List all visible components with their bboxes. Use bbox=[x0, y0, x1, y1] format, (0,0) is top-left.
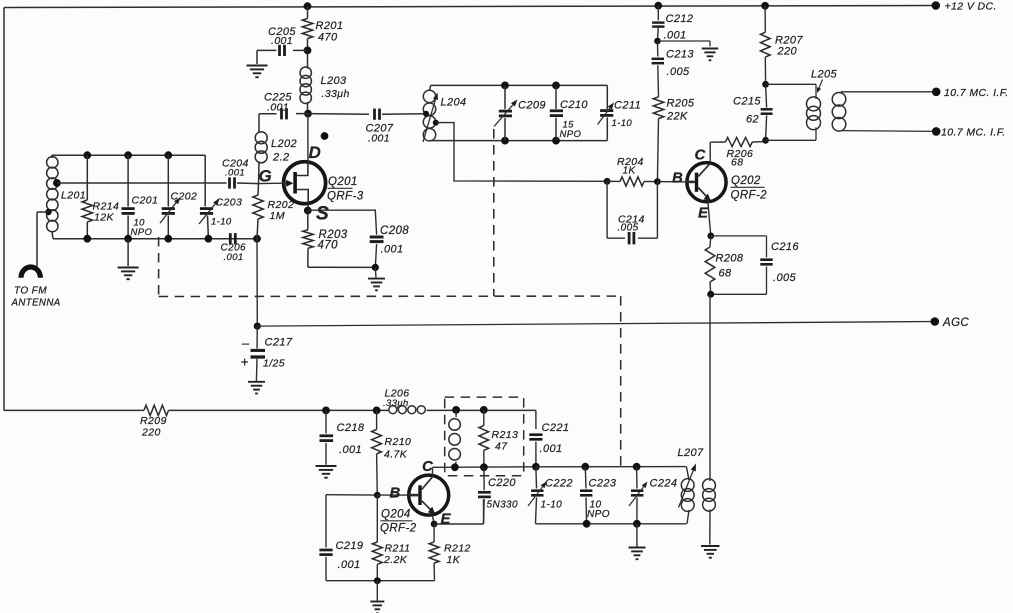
svg-text:5N330: 5N330 bbox=[487, 500, 519, 511]
label E Q204 bbox=[441, 511, 452, 528]
svg-text:.33μh: .33μh bbox=[383, 398, 409, 409]
capacitor C220 5N330 bbox=[478, 467, 518, 524]
label 10.7 MC IF top bbox=[944, 87, 1009, 99]
svg-text:ANTENNA: ANTENNA bbox=[11, 298, 61, 309]
svg-text:.001: .001 bbox=[338, 559, 361, 571]
node C202 top bbox=[164, 151, 172, 159]
svg-text:C212: C212 bbox=[666, 13, 694, 25]
svg-text:R205: R205 bbox=[667, 98, 695, 110]
svg-text:L207: L207 bbox=[678, 447, 705, 459]
svg-text:.005: .005 bbox=[773, 272, 796, 284]
svg-text:47: 47 bbox=[495, 441, 508, 453]
svg-text:.001: .001 bbox=[664, 30, 687, 42]
svg-text:B: B bbox=[672, 170, 683, 187]
resistor R205 22K bbox=[653, 97, 695, 182]
resistor R211 2.2K bbox=[372, 495, 410, 581]
node C212/C213 ground junction bbox=[654, 38, 661, 45]
label Q202 QRF-2 bbox=[731, 175, 768, 202]
node C215 top junction bbox=[762, 81, 769, 88]
svg-text:220: 220 bbox=[777, 46, 798, 58]
capacitor C205 .001 bbox=[257, 26, 308, 64]
label C Q204 bbox=[422, 458, 434, 475]
svg-text:.001: .001 bbox=[339, 444, 362, 456]
svg-text:C222: C222 bbox=[545, 478, 573, 490]
capacitor C225 .001 bbox=[259, 92, 308, 120]
node C221 bottom junction bbox=[532, 463, 540, 471]
svg-text:2.2: 2.2 bbox=[272, 152, 290, 164]
resistor R210 4.7K bbox=[372, 410, 412, 495]
ground under C201 bbox=[118, 239, 139, 280]
resistor R203 470 bbox=[303, 211, 376, 268]
terminal AGC bbox=[931, 317, 940, 326]
capacitor C207 .001 bbox=[308, 109, 426, 145]
ground under bottom tank bbox=[629, 524, 646, 559]
label +12 V DC bbox=[945, 1, 997, 13]
label L205 with arrow bbox=[811, 69, 838, 94]
svg-text:.001: .001 bbox=[267, 102, 289, 114]
svg-text:C: C bbox=[695, 147, 707, 164]
svg-text:C215: C215 bbox=[733, 96, 761, 108]
label C Q202 bbox=[695, 147, 707, 164]
svg-text:.001: .001 bbox=[225, 168, 245, 179]
svg-text:.005: .005 bbox=[667, 66, 690, 78]
resistor R201 bbox=[302, 6, 343, 68]
node C218 top bbox=[322, 407, 330, 415]
svg-text:470: 470 bbox=[318, 240, 339, 252]
node Q204 emitter bbox=[431, 521, 438, 528]
label L207 with arrow bbox=[678, 447, 705, 508]
svg-text:L202: L202 bbox=[271, 138, 297, 150]
svg-text:AGC: AGC bbox=[942, 317, 969, 329]
svg-text:.001: .001 bbox=[381, 244, 404, 256]
wire R209 to C221 corner bbox=[169, 409, 536, 411]
wire C206 junction down to AGC node bbox=[256, 239, 258, 326]
node C209 top bbox=[501, 82, 509, 90]
wire 10.7 MC IF bottom lead bbox=[841, 130, 936, 133]
svg-text:22K: 22K bbox=[666, 111, 688, 123]
wire L205 primary top bbox=[766, 84, 816, 99]
dashed box oscillator coil bbox=[445, 397, 524, 476]
capacitor C214 .005 bbox=[607, 181, 657, 244]
node R204 right junction bbox=[654, 178, 661, 185]
svg-text:1-10: 1-10 bbox=[541, 500, 563, 511]
capacitor C212 .001 bbox=[652, 6, 693, 42]
ground under L207 bbox=[701, 546, 720, 558]
svg-text:C218: C218 bbox=[337, 422, 365, 434]
capacitor C224 variable bbox=[629, 467, 677, 524]
wire Q204 emitter down bbox=[432, 511, 435, 525]
node R208/C216 bottom junction bbox=[707, 291, 714, 298]
svg-text:C221: C221 bbox=[542, 422, 570, 434]
svg-text:D: D bbox=[309, 143, 322, 162]
wire bottom main bus to R209 bbox=[4, 409, 144, 411]
svg-text:C210: C210 bbox=[560, 99, 588, 111]
ground under C208 bbox=[368, 267, 385, 290]
ground under C217 bbox=[248, 382, 265, 394]
svg-text:R210: R210 bbox=[385, 436, 412, 448]
resistor R208 68 bbox=[705, 236, 744, 294]
svg-text:B: B bbox=[390, 485, 401, 502]
label G bbox=[259, 167, 273, 186]
inductor L204 variable bbox=[423, 85, 467, 142]
node L206 secondary top bbox=[452, 406, 460, 414]
node R201 top bbox=[304, 2, 312, 10]
dashed gang horizontal line bbox=[159, 295, 621, 297]
wire Q201 source to node bbox=[307, 204, 309, 211]
svg-text:S: S bbox=[316, 204, 329, 225]
svg-text:C224: C224 bbox=[650, 478, 678, 490]
svg-text:QRF-2: QRF-2 bbox=[380, 523, 417, 535]
node C201 top bbox=[124, 151, 132, 159]
node Q204 base bbox=[374, 492, 381, 499]
capacitor C201 10 NPO bbox=[122, 155, 159, 239]
transistor Q204 QRF-2 bbox=[377, 475, 448, 515]
svg-text:C213: C213 bbox=[666, 49, 694, 61]
node C206/R202 junction bbox=[253, 235, 261, 243]
svg-text:1K: 1K bbox=[447, 554, 461, 566]
wire bottom ground bus bbox=[326, 580, 435, 582]
node R213 top bbox=[480, 406, 488, 414]
node C224 top bbox=[633, 463, 641, 471]
ground under C212/C213 bbox=[702, 49, 719, 61]
wire left border rail bbox=[3, 8, 5, 411]
svg-text:C209: C209 bbox=[518, 100, 546, 112]
dashed gang line from C202 bbox=[158, 237, 160, 297]
capacitor C204 .001 bbox=[222, 158, 259, 189]
svg-text:NPO: NPO bbox=[560, 129, 582, 140]
node C208 ground junction bbox=[372, 264, 379, 271]
svg-text:TO FM: TO FM bbox=[14, 286, 47, 297]
wire tank top bus bbox=[52, 155, 206, 199]
inductor L201 antenna coil bbox=[47, 155, 86, 239]
svg-text:Q204: Q204 bbox=[381, 509, 411, 521]
svg-text:C223: C223 bbox=[589, 478, 617, 490]
svg-text:470: 470 bbox=[318, 32, 338, 44]
capacitor C221 .001 bbox=[529, 422, 569, 467]
wire bottom tank top bus bbox=[536, 466, 687, 468]
svg-text:.005: .005 bbox=[618, 223, 639, 234]
terminal +12V DC bbox=[932, 1, 941, 10]
capacitor C216 .005 bbox=[711, 236, 800, 294]
svg-text:QRF-2: QRF-2 bbox=[731, 190, 768, 202]
resistor R213 47 bbox=[479, 410, 518, 467]
node R214 bottom bbox=[83, 235, 91, 243]
svg-text:10.7 MC. I.F.: 10.7 MC. I.F. bbox=[944, 87, 1009, 99]
capacitor C223 10 NPO bbox=[580, 467, 617, 524]
svg-text:.001: .001 bbox=[368, 133, 390, 145]
svg-text:1K: 1K bbox=[623, 166, 637, 177]
svg-text:.33μh: .33μh bbox=[322, 88, 350, 100]
svg-text:C203: C203 bbox=[216, 197, 243, 209]
terminal 10.7 MC IF top bbox=[932, 88, 941, 97]
svg-text:1-10: 1-10 bbox=[211, 217, 232, 228]
node C224 bottom ground bbox=[633, 520, 641, 528]
wire 10.7 MC IF top lead bbox=[841, 92, 936, 93]
node R210 top bbox=[373, 407, 381, 415]
capacitor C203 1-10 variable bbox=[199, 197, 242, 239]
wire +12V top bus bbox=[4, 6, 936, 8]
svg-text:R211: R211 bbox=[385, 543, 411, 555]
node L204 lower tap bbox=[433, 120, 439, 126]
capacitor C211 1-10 variable bbox=[598, 85, 642, 140]
node C202 bottom bbox=[164, 235, 172, 243]
capacitor C206 .001 bbox=[221, 233, 247, 263]
ground under R211 bbox=[370, 581, 384, 613]
label B Q204 bbox=[390, 485, 401, 502]
label 10.7 MC IF bottom bbox=[941, 127, 1006, 139]
resistor R206 68 bbox=[710, 137, 765, 168]
node C215 bottom junction bbox=[762, 137, 769, 144]
inductor L207 secondary winding bbox=[703, 294, 716, 511]
svg-text:R208: R208 bbox=[716, 253, 744, 265]
dashed gang line from C209 bbox=[493, 129, 495, 296]
wire emitter to C220 bottom bbox=[434, 499, 483, 524]
capacitor C213 .005 bbox=[652, 41, 695, 97]
svg-text:Q201: Q201 bbox=[328, 176, 358, 188]
ground under C218 bbox=[316, 466, 337, 478]
wire gate line from L201 tap to C204 bbox=[53, 179, 227, 187]
wire Q201 drain bbox=[307, 114, 309, 163]
svg-text:+: + bbox=[241, 355, 249, 370]
node L204 C207 tap bbox=[423, 111, 429, 117]
capacitor C218 .001 bbox=[320, 410, 365, 464]
node AGC/C217 junction bbox=[254, 323, 261, 330]
node R213/C220 junction bbox=[480, 463, 488, 471]
label B Q202 bbox=[672, 170, 683, 187]
wire middle tank top bus bbox=[431, 84, 608, 86]
transistor Q202 QRF-2 bbox=[657, 163, 726, 202]
svg-text:R212: R212 bbox=[444, 543, 471, 555]
capacitor C219 .001 bbox=[319, 540, 363, 581]
svg-text:R201: R201 bbox=[316, 20, 344, 32]
label Q204 QRF-2 bbox=[380, 509, 417, 535]
svg-text:68: 68 bbox=[731, 157, 743, 169]
svg-text:1M: 1M bbox=[270, 210, 285, 222]
node C203 bottom bbox=[205, 235, 213, 243]
capacitor C209 variable bbox=[494, 85, 546, 140]
svg-text:.001: .001 bbox=[540, 443, 563, 455]
svg-text:E: E bbox=[441, 511, 452, 528]
wire L207 secondary to ground bbox=[709, 510, 711, 545]
resistor R209 bbox=[140, 405, 169, 438]
svg-text:R213: R213 bbox=[492, 429, 519, 441]
inductor L205 primary winding bbox=[807, 97, 821, 130]
svg-text:–: – bbox=[241, 336, 250, 351]
transistor Q201 QRF-3 bbox=[259, 162, 326, 204]
svg-text:C211: C211 bbox=[614, 100, 641, 112]
label E Q202 bbox=[698, 205, 709, 222]
node C210 bottom bbox=[552, 137, 560, 145]
svg-text:L205: L205 bbox=[811, 69, 838, 81]
node C223 top bbox=[581, 463, 589, 471]
svg-text:E: E bbox=[698, 205, 709, 222]
wire Q202 collector up bbox=[709, 142, 711, 163]
wire Q204 collector bus bbox=[433, 466, 536, 469]
node R204 left junction bbox=[604, 178, 611, 185]
label S bbox=[316, 204, 329, 225]
resistor R214 12K bbox=[82, 155, 119, 239]
label Q201 QRF-3 bbox=[327, 176, 364, 203]
svg-text:R209: R209 bbox=[140, 415, 167, 427]
resistor R204 1K bbox=[607, 156, 657, 186]
svg-text:QRF-3: QRF-3 bbox=[327, 191, 364, 203]
resistor R202 1M bbox=[253, 184, 294, 239]
svg-text:4.7K: 4.7K bbox=[384, 449, 408, 461]
svg-text:62: 62 bbox=[746, 114, 759, 126]
svg-text:NPO: NPO bbox=[131, 227, 153, 238]
node R207 top bbox=[761, 2, 769, 10]
node C210 top bbox=[552, 82, 560, 90]
wire to ground from C212/C213 bbox=[658, 41, 711, 47]
svg-text:.001: .001 bbox=[224, 252, 244, 263]
inductor L202 2.2 bbox=[255, 114, 297, 184]
svg-text:C216: C216 bbox=[771, 241, 799, 253]
svg-text:12K: 12K bbox=[94, 212, 114, 224]
wire L205 primary bottom bbox=[766, 127, 816, 140]
svg-text:L201: L201 bbox=[61, 190, 86, 202]
node Q202 emitter junction bbox=[707, 233, 714, 240]
capacitor C222 1-10 variable bbox=[528, 467, 573, 524]
svg-text:C217: C217 bbox=[265, 337, 293, 349]
svg-text:10.7 MC. I.F.: 10.7 MC. I.F. bbox=[941, 127, 1006, 139]
label AGC bbox=[942, 317, 969, 329]
svg-text:1/25: 1/25 bbox=[263, 358, 285, 370]
wire middle tank bottom bus bbox=[430, 140, 608, 142]
capacitor C210 15 NPO bbox=[550, 85, 589, 140]
inductor L205 secondary winding bbox=[832, 92, 846, 131]
svg-text:68: 68 bbox=[719, 268, 733, 280]
svg-text:Q202: Q202 bbox=[731, 175, 761, 187]
node R214 top bbox=[83, 151, 91, 159]
capacitor C217 1/25 electrolytic bbox=[241, 326, 293, 381]
capacitor C215 62 bbox=[733, 84, 773, 140]
svg-text:C202: C202 bbox=[171, 191, 198, 203]
wire Q202 emitter down bbox=[708, 198, 711, 236]
inductor L207 primary winding bbox=[681, 467, 694, 524]
node Q201 drain marker dot bbox=[321, 132, 329, 140]
svg-text:NPO: NPO bbox=[587, 509, 610, 520]
capacitor C202 variable bbox=[160, 155, 197, 239]
svg-text:2.2K: 2.2K bbox=[383, 554, 408, 566]
node C212 top bbox=[654, 2, 662, 10]
svg-text:220: 220 bbox=[141, 427, 161, 439]
svg-text:1-10: 1-10 bbox=[612, 118, 633, 129]
wire B rail C219 bbox=[326, 495, 377, 548]
svg-text:C201: C201 bbox=[132, 195, 159, 207]
wire L204 tap to R204 line bbox=[436, 123, 607, 182]
terminal 10.7 MC IF bottom bbox=[932, 127, 941, 136]
label TO FM ANTENNA bbox=[11, 286, 61, 309]
node Q201 source bbox=[304, 207, 312, 215]
svg-text:C219: C219 bbox=[336, 540, 364, 552]
dashed gang line down to C222 tank bbox=[620, 296, 622, 467]
inductor L206 .33uh primary bbox=[383, 388, 425, 414]
svg-text:C220: C220 bbox=[488, 477, 516, 489]
wire Q204 collector up bbox=[432, 467, 434, 477]
svg-text:.001: .001 bbox=[271, 35, 293, 47]
node C209 bottom bbox=[501, 137, 509, 145]
wire tank bottom bus bbox=[53, 238, 257, 240]
wire main bus into C221 bbox=[535, 410, 537, 429]
inductor L206 secondary winding bbox=[449, 410, 461, 467]
node C201 bottom ground bbox=[124, 235, 132, 243]
resistor R207 220 bbox=[761, 6, 804, 85]
svg-text:G: G bbox=[259, 167, 273, 186]
node L206 secondary bottom bbox=[451, 463, 459, 471]
wire bottom tank bottom bus bbox=[536, 523, 687, 525]
wire AGC line bbox=[257, 322, 935, 327]
antenna symbol bbox=[21, 267, 40, 278]
capacitor C208 .001 bbox=[308, 210, 409, 267]
node C223 bottom bbox=[583, 520, 591, 528]
node L203/C225/C207 junction bbox=[304, 110, 312, 118]
svg-text:L204: L204 bbox=[441, 97, 467, 109]
ground under C205 bbox=[247, 66, 268, 78]
svg-text:L203: L203 bbox=[321, 75, 348, 87]
node C205 junction bbox=[304, 47, 312, 55]
antenna tap wire bbox=[37, 209, 52, 267]
node ground bus junction bbox=[374, 577, 381, 584]
svg-text:C208: C208 bbox=[380, 225, 409, 237]
resistor R212 1K bbox=[429, 524, 471, 581]
inductor L203 .33uh bbox=[300, 67, 350, 114]
svg-text:+12 V DC.: +12 V DC. bbox=[945, 1, 997, 13]
label D bbox=[309, 143, 322, 162]
